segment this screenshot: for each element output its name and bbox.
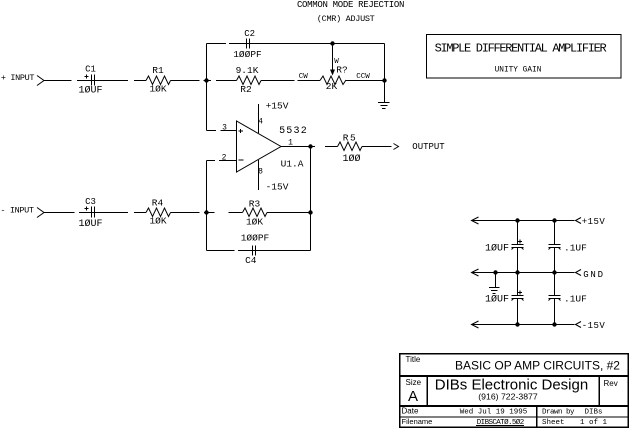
svg-text:Drawn by: Drawn by xyxy=(542,409,575,417)
svg-text:COMMON MODE REJECTION: COMMON MODE REJECTION xyxy=(297,0,404,10)
node: + INPUT port xyxy=(37,76,44,86)
node: +15V rail port xyxy=(576,218,582,224)
wire: node D to R5 xyxy=(311,146,316,148)
wire: C4 branch xyxy=(207,250,235,252)
wire: -input port to C3 xyxy=(44,212,75,214)
resistor R3 xyxy=(243,208,268,217)
svg-text:-15V: -15V xyxy=(582,321,606,331)
title block rev cell divider xyxy=(598,376,600,406)
svg-text:+15V: +15V xyxy=(582,217,606,227)
svg-text:R1: R1 xyxy=(152,65,164,76)
svg-text:R?: R? xyxy=(336,65,347,76)
wire: wiper vertical xyxy=(332,44,334,71)
svg-text:DIBSCATØ.5Ø2: DIBSCATØ.5Ø2 xyxy=(477,418,524,427)
wire: R5 to output arrow xyxy=(362,146,392,148)
potentiometer R? body xyxy=(320,76,346,85)
wire: -15V power rail xyxy=(472,324,575,326)
svg-text:(916) 722-3877: (916) 722-3877 xyxy=(478,392,538,402)
node: -15V rail port xyxy=(576,322,582,328)
capacitor C1 polarity + xyxy=(85,76,89,78)
svg-text:1ØUF: 1ØUF xyxy=(78,218,102,230)
node: +15V rail left arrow xyxy=(472,217,479,224)
wire: R2 to potentiometer CW terminal xyxy=(261,80,295,82)
ground symbol (power rail) xyxy=(489,287,500,289)
svg-text:Size: Size xyxy=(406,378,422,387)
wire: node A down to op-amp pin 3 xyxy=(206,81,208,131)
svg-text:UNITY GAIN: UNITY GAIN xyxy=(495,67,542,75)
svg-text:U1.A: U1.A xyxy=(281,159,304,170)
svg-text:1ØK: 1ØK xyxy=(246,217,263,228)
node: OUTPUT port arrow xyxy=(394,144,399,150)
wire: R3 to node F xyxy=(267,212,311,214)
svg-text:+ INPUT: + INPUT xyxy=(1,73,35,83)
svg-text:A: A xyxy=(408,388,418,405)
node A junction dot xyxy=(204,78,208,82)
svg-text:1ØØPF: 1ØØPF xyxy=(233,49,262,60)
svg-text:(CMR) ADJUST: (CMR) ADJUST xyxy=(317,14,375,24)
svg-text:1ØØPF: 1ØØPF xyxy=(241,233,270,244)
wire: +15V power rail xyxy=(472,220,575,222)
wire: potentiometer CCW terminal to node B xyxy=(346,80,385,82)
capacitor C1 plates xyxy=(91,75,93,86)
node: -15V rail left arrow xyxy=(472,321,479,328)
svg-text:1: 1 xyxy=(288,139,293,148)
title block outer border xyxy=(400,354,629,428)
svg-text:1ØK: 1ØK xyxy=(149,216,166,227)
capacitor 10UF (bottom left bypass) xyxy=(512,295,524,297)
svg-text:3: 3 xyxy=(222,124,227,133)
svg-text:.1UF: .1UF xyxy=(564,243,587,254)
svg-text:Sheet: Sheet xyxy=(542,419,565,427)
resistor R1 xyxy=(146,76,171,85)
svg-text:C3: C3 xyxy=(85,197,96,207)
svg-text:9.1K: 9.1K xyxy=(236,65,259,76)
svg-text:BASIC OP AMP CIRCUITS, #2: BASIC OP AMP CIRCUITS, #2 xyxy=(455,359,620,373)
wire: GND power rail xyxy=(472,272,575,274)
wire: node D down through node F to C4 xyxy=(310,147,312,251)
resistor R2 xyxy=(237,76,262,85)
capacitor C2 plates xyxy=(246,39,248,49)
capacitor C3 polarity + xyxy=(85,208,89,210)
svg-text:Wed Jul 19 1995: Wed Jul 19 1995 xyxy=(460,409,528,417)
svg-text:1ØUF: 1ØUF xyxy=(78,85,102,97)
wire: C2 branch right to corner xyxy=(333,43,385,45)
node F junction dot xyxy=(308,210,312,214)
svg-text:4: 4 xyxy=(258,118,263,127)
capacitor .1UF (top right bypass) xyxy=(549,244,561,246)
wire: node E to R3 xyxy=(229,212,243,214)
capacitor .1UF (bottom right bypass) xyxy=(549,295,561,297)
svg-text:2: 2 xyxy=(222,154,227,163)
svg-text:8: 8 xyxy=(258,168,263,177)
svg-text:1 of 1: 1 of 1 xyxy=(580,419,608,427)
svg-text:1ØUF: 1ØUF xyxy=(485,243,509,255)
svg-text:R4: R4 xyxy=(152,198,164,209)
capacitor 10UF polarity + (bottom) xyxy=(518,292,522,294)
svg-text:1ØUF: 1ØUF xyxy=(485,294,509,306)
svg-text:R2: R2 xyxy=(240,84,252,95)
ground symbol (pot) xyxy=(378,102,390,104)
capacitor 10UF (top left bypass) xyxy=(512,244,524,246)
wire: right bypass column xyxy=(554,221,556,245)
svg-text:-15V: -15V xyxy=(266,182,289,193)
wire: corner down to ground xyxy=(384,44,386,103)
svg-text:Filename: Filename xyxy=(402,417,433,426)
node: GND rail junction dots xyxy=(493,270,497,274)
wire: C2 branch left xyxy=(207,43,227,45)
node B junction dot xyxy=(382,78,386,82)
title block row divider 1 xyxy=(400,375,629,377)
svg-text:OUTPUT: OUTPUT xyxy=(412,142,445,152)
svg-text:C2: C2 xyxy=(244,29,255,39)
capacitor 10UF polarity + (top) xyxy=(518,241,522,243)
svg-text:.1UF: .1UF xyxy=(564,294,587,305)
wire: GND stub xyxy=(495,273,497,288)
wire: node E down to C4 branch xyxy=(206,213,208,251)
svg-text:1ØK: 1ØK xyxy=(149,84,166,95)
node: GND rail left arrow xyxy=(472,269,479,276)
svg-text:DIBs: DIBs xyxy=(585,409,603,417)
wire: C1 to R1 xyxy=(134,80,146,82)
wire: op-amp pin 2 corner xyxy=(207,160,216,162)
resistor R4 xyxy=(146,208,171,217)
op-amp + input symbol xyxy=(239,130,244,132)
capacitor C4 plates xyxy=(252,246,254,256)
svg-text:CCW: CCW xyxy=(356,73,370,81)
node E junction dot xyxy=(204,210,208,214)
svg-text:Date: Date xyxy=(402,407,419,416)
svg-text:C1: C1 xyxy=(85,65,96,75)
svg-text:Title: Title xyxy=(406,355,421,364)
svg-text:GND: GND xyxy=(583,270,605,280)
potentiometer wiper arrowhead xyxy=(330,70,335,76)
title block bottom cell divider xyxy=(536,406,538,427)
wire: node A to R2 xyxy=(207,80,212,82)
svg-text:CW: CW xyxy=(299,73,309,81)
wire: op-amp output to node D xyxy=(281,146,311,148)
resistor R5 xyxy=(338,142,363,151)
op-amp pin 4 supply lead xyxy=(258,104,260,133)
filename underline xyxy=(476,424,524,426)
svg-text:R5: R5 xyxy=(343,133,357,144)
node: +15V rail junction dots xyxy=(515,218,519,222)
node: GND rail port xyxy=(576,270,582,276)
node C junction dot (wiper tap) xyxy=(330,41,334,45)
node: - INPUT port xyxy=(37,208,44,218)
title block size cell divider xyxy=(426,376,428,406)
svg-text:+15V: +15V xyxy=(266,101,289,112)
op-amp pin 8 supply lead xyxy=(258,160,260,190)
wire: +input port to C1 xyxy=(44,80,72,82)
svg-text:1ØØ: 1ØØ xyxy=(342,153,360,165)
svg-text:R3: R3 xyxy=(249,199,261,210)
node D junction dot xyxy=(308,144,312,148)
svg-text:Rev: Rev xyxy=(604,379,618,388)
info box: SIMPLE DIFFERENTIAL AMPLIFIER xyxy=(427,35,622,79)
op-amp U1.A triangle xyxy=(237,121,282,172)
node: -15V rail junction dots xyxy=(515,322,519,326)
svg-text:5532: 5532 xyxy=(279,126,308,137)
op-amp - input symbol xyxy=(239,159,244,161)
svg-text:C4: C4 xyxy=(245,255,257,266)
title block row divider 2 xyxy=(400,405,629,407)
capacitor C3 plates xyxy=(91,207,93,218)
wire: R1 to node A xyxy=(171,80,200,82)
wire: node A up to C2 branch xyxy=(206,44,208,81)
svg-text:SIMPLE DIFFERENTIAL AMPLIFIER: SIMPLE DIFFERENTIAL AMPLIFIER xyxy=(435,42,607,56)
wire: R4 to node E xyxy=(171,212,200,214)
svg-text:2K: 2K xyxy=(326,81,338,92)
wire: C3 to R4 xyxy=(134,212,146,214)
wire: left bypass column xyxy=(517,221,519,245)
svg-text:- INPUT: - INPUT xyxy=(0,206,34,216)
title block row divider 3 xyxy=(400,416,629,418)
